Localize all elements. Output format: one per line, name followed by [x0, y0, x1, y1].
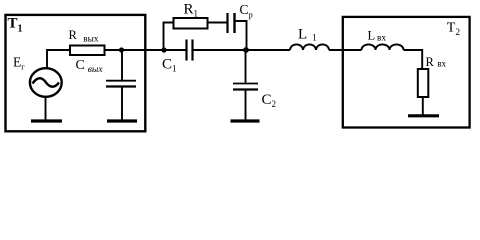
svg-text:Cр: Cр [240, 2, 253, 20]
wire R1 to Cp [208, 22, 227, 24]
wire L1 to T2 [329, 49, 362, 51]
capacitor C1 [187, 40, 193, 61]
svg-text:L1: L1 [298, 26, 317, 42]
svg-text:T2: T2 [447, 21, 461, 39]
box T2 [343, 17, 470, 128]
inductor Lvx [362, 44, 404, 50]
wire Cvyx to ground [121, 87, 123, 120]
resistor R1 [174, 18, 208, 29]
wire corner Eg to Rout [47, 50, 70, 68]
svg-text:Rвх: Rвх [426, 55, 447, 69]
wire Rvyx to box edge [105, 49, 187, 51]
wire Rvx to ground [422, 97, 424, 115]
wire C1 to L1 [194, 49, 291, 51]
resistor Rvyx [70, 46, 105, 56]
svg-text:Lвх: Lвх [368, 29, 387, 44]
svg-text:Rвых: Rвых [69, 28, 99, 45]
ground bar under Rvx [408, 114, 439, 117]
ground bar under Cvyx [107, 119, 137, 122]
ground bar under C2 [231, 119, 260, 122]
capacitor Cp [228, 13, 235, 33]
svg-text:C2: C2 [262, 92, 277, 109]
wire node A down to Cvyx [121, 50, 123, 81]
svg-text:Cвых: Cвых [76, 58, 104, 75]
wire Cp down to node C [236, 21, 247, 50]
ground bar under Eg [31, 119, 62, 122]
capacitor Cvyx [106, 81, 136, 87]
svg-text:T1: T1 [8, 15, 23, 34]
junction node B [161, 47, 166, 52]
wire C2 to ground [245, 90, 247, 120]
wire node C down to C2 [245, 50, 247, 83]
inductor L1 [290, 44, 329, 50]
wire Eg to ground [45, 97, 47, 120]
box T1 [6, 15, 146, 131]
svg-text:R1: R1 [184, 2, 199, 19]
wire node B up to R1 branch [164, 23, 174, 51]
junction node C [243, 47, 249, 53]
wire Lvx corner down to Rvx [404, 50, 423, 69]
source Eg [30, 68, 62, 97]
capacitor C2 [233, 84, 258, 90]
resistor Rvx [418, 69, 429, 97]
junction node A [119, 47, 124, 52]
svg-text:Eг: Eг [13, 55, 25, 72]
svg-text:C1: C1 [162, 56, 177, 73]
